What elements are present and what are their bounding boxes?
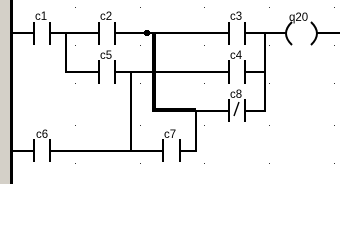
wire node A to c5 — [65, 71, 98, 73]
coil q20 — [286, 12, 317, 45]
wire c4 to node C — [246, 71, 266, 73]
wire c7 to riser — [181, 150, 196, 152]
wire rail to c6 — [13, 150, 33, 152]
contact c6 — [33, 129, 51, 162]
contact c7 — [162, 129, 181, 162]
wire rail to c1 — [13, 32, 33, 34]
svg-text:c1: c1 — [35, 11, 47, 23]
wire c6 to c7 — [51, 150, 162, 152]
svg-text:c3: c3 — [230, 11, 242, 23]
riser wire c7 up to c8 rung — [195, 110, 197, 152]
wire c5 to c4 — [116, 71, 228, 73]
node A branch wire down to c5 — [65, 32, 67, 73]
svg-text:c6: c6 — [36, 129, 48, 141]
branch wire c5 rung down to c6-c7 rung — [130, 71, 132, 152]
left power rail — [10, 0, 13, 184]
wire coil q20 to right edge — [316, 32, 340, 34]
contact c3 — [228, 11, 246, 45]
svg-text:c2: c2 — [100, 11, 112, 23]
node B junction dot — [144, 30, 150, 36]
wire c1 to c2 — [51, 32, 98, 34]
wire c2 to c3 — [116, 32, 228, 34]
contact c1 — [33, 11, 51, 45]
svg-text:c7: c7 — [164, 129, 176, 141]
wire c3 to coil q20 — [246, 32, 287, 34]
thick branch wire node B down to c8 rung — [152, 32, 196, 112]
wire c8 to node C — [246, 110, 266, 112]
node C vertical wire joining c3, c4 and c8 outputs — [264, 32, 266, 112]
contact c2 — [98, 11, 116, 45]
wire thick branch to c8 — [196, 110, 228, 112]
svg-text:c5: c5 — [100, 50, 112, 62]
contact c5 — [98, 50, 116, 84]
contact c8 (normally closed) — [228, 89, 246, 122]
svg-text:c8: c8 — [230, 89, 242, 101]
svg-text:c4: c4 — [230, 50, 243, 62]
contact c4 — [228, 50, 246, 84]
